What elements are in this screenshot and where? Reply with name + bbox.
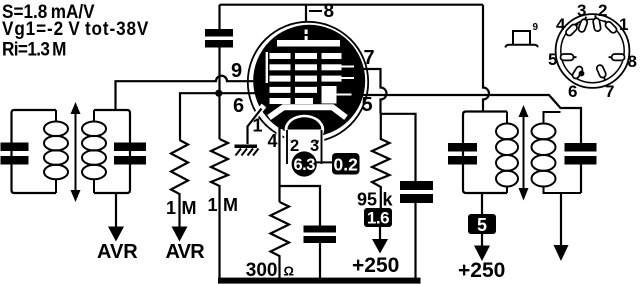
svg-text:7: 7 xyxy=(364,47,375,69)
svg-text:Ω: Ω xyxy=(284,264,294,279)
text parameters block xyxy=(2,0,149,60)
svg-text:1: 1 xyxy=(619,15,628,34)
capacitor C7 plates xyxy=(565,143,597,165)
svg-text:+250: +250 xyxy=(352,254,399,277)
capacitor C1 plates xyxy=(205,29,233,48)
resistor R4 label 95k xyxy=(357,190,394,210)
svg-text:4: 4 xyxy=(268,131,278,151)
wire grid pin9 line with hop xyxy=(116,76,255,110)
svg-text:6: 6 xyxy=(568,82,577,101)
wire to 0.2 box xyxy=(317,161,334,163)
wire pin7 with hop xyxy=(362,69,387,114)
svg-text:6: 6 xyxy=(233,95,244,117)
capacitor C2 plates xyxy=(1,143,29,165)
svg-text:Ri=1.3 M: Ri=1.3 M xyxy=(2,38,66,60)
socket pin lugs xyxy=(561,15,625,81)
resistor R1 1M xyxy=(171,140,188,228)
svg-text:95: 95 xyxy=(357,190,377,210)
IF transformer T1 frame left xyxy=(12,110,57,193)
wire pin4 cathode lead xyxy=(277,129,283,137)
resistor R4 95k xyxy=(372,114,390,208)
IF transformer T2 frame left xyxy=(463,112,507,194)
svg-text:+250: +250 xyxy=(458,259,505,282)
svg-text:9: 9 xyxy=(533,22,539,33)
tube V1 cathode chevron xyxy=(269,107,346,117)
ground bus bottom xyxy=(218,278,421,284)
svg-text:1: 1 xyxy=(166,198,176,218)
svg-text:2: 2 xyxy=(290,137,299,155)
wire pin1 to chassis xyxy=(248,109,262,145)
tube V1 black body xyxy=(253,25,365,137)
tube V1 internal electrodes xyxy=(266,30,354,105)
svg-text:3: 3 xyxy=(577,1,586,20)
svg-text:7: 7 xyxy=(605,82,614,101)
chassis ground xyxy=(235,145,259,156)
svg-text:AVR: AVR xyxy=(166,241,206,263)
wire output arrow drop xyxy=(560,193,562,248)
svg-text:3: 3 xyxy=(310,137,319,155)
inductor L3 primary xyxy=(496,112,518,194)
inductor L2 secondary xyxy=(82,110,106,193)
svg-text:9: 9 xyxy=(231,60,242,82)
svg-text:AVR: AVR xyxy=(97,241,138,263)
tuning arrow T1 xyxy=(71,102,81,202)
wire top anode bus xyxy=(220,4,484,6)
svg-text:4: 4 xyxy=(556,15,566,34)
svg-text:M: M xyxy=(182,198,197,218)
svg-text:5: 5 xyxy=(477,215,487,235)
wire cap to R2 xyxy=(218,93,220,139)
capacitor C3 plates xyxy=(114,143,146,165)
wire AVR drop 1 xyxy=(115,193,117,228)
wire cathode branch xyxy=(280,186,321,226)
current 5 box xyxy=(468,214,496,234)
svg-text:6.3: 6.3 xyxy=(293,156,315,174)
arrow +250 second xyxy=(481,234,483,248)
resistor R2 label 1M xyxy=(207,195,238,215)
wire anode bus drop with hop xyxy=(483,5,489,112)
top cap symbol xyxy=(506,22,539,48)
svg-text:1: 1 xyxy=(207,195,217,215)
inductor L1 primary xyxy=(44,110,68,193)
svg-text:5: 5 xyxy=(548,50,557,69)
resistor R3 300 cathode xyxy=(271,202,290,278)
current 1.6 box xyxy=(364,208,392,227)
svg-text:k: k xyxy=(383,190,394,210)
svg-text:2: 2 xyxy=(598,1,607,20)
node junction dot xyxy=(215,90,222,97)
wire heater pin2 lead xyxy=(286,130,288,164)
pin 1 white channel xyxy=(247,106,265,127)
wire pin5 long line xyxy=(358,95,581,144)
svg-text:1: 1 xyxy=(253,116,263,136)
wire screen branch xyxy=(381,114,416,181)
svg-text:M: M xyxy=(223,195,238,215)
arrow output xyxy=(554,245,569,261)
svg-text:Vg1=-2 V tot-38V: Vg1=-2 V tot-38V xyxy=(2,17,149,39)
capacitor C5 screen plates xyxy=(400,181,433,203)
svg-text:5: 5 xyxy=(362,94,373,116)
tube V1 envelope xyxy=(248,22,368,142)
capacitor C4 cathode plates xyxy=(304,226,337,244)
wire pin6 line xyxy=(180,93,256,140)
heater supply 6.3 disc xyxy=(292,151,317,176)
wire C4 to bus xyxy=(319,243,321,278)
pin 8 label tick xyxy=(309,10,322,12)
arrow AVR 2 xyxy=(172,227,188,242)
wire C5 to bus xyxy=(414,203,416,278)
svg-text:0.2: 0.2 xyxy=(334,155,359,175)
IF transformer T1 frame right xyxy=(94,110,130,193)
capacitor C6 plates xyxy=(448,143,477,165)
wire heater pin3 lead xyxy=(321,130,323,164)
svg-text:8: 8 xyxy=(324,1,335,22)
capacitor C1 neutralizing lead xyxy=(218,5,220,90)
inductor L4 secondary xyxy=(532,112,582,193)
tuning arrow T2 xyxy=(519,105,529,201)
wire pin8 top lead xyxy=(305,5,307,22)
socket index dot xyxy=(579,71,585,77)
wire 5 box drop xyxy=(481,193,483,214)
arrow AVR 1 xyxy=(108,227,124,242)
svg-text:1.6: 1.6 xyxy=(367,209,389,228)
arrow +250 first xyxy=(379,227,381,240)
resistor R1 label 1M xyxy=(166,198,197,218)
svg-text:8: 8 xyxy=(628,52,637,71)
tube V1 bottom white channels xyxy=(280,130,322,146)
tube socket diagram xyxy=(548,1,637,101)
wire C7 bottom xyxy=(580,165,582,194)
socket labels xyxy=(548,1,637,101)
resistor R2 1M xyxy=(211,139,228,278)
current 0.2 box xyxy=(332,153,360,175)
